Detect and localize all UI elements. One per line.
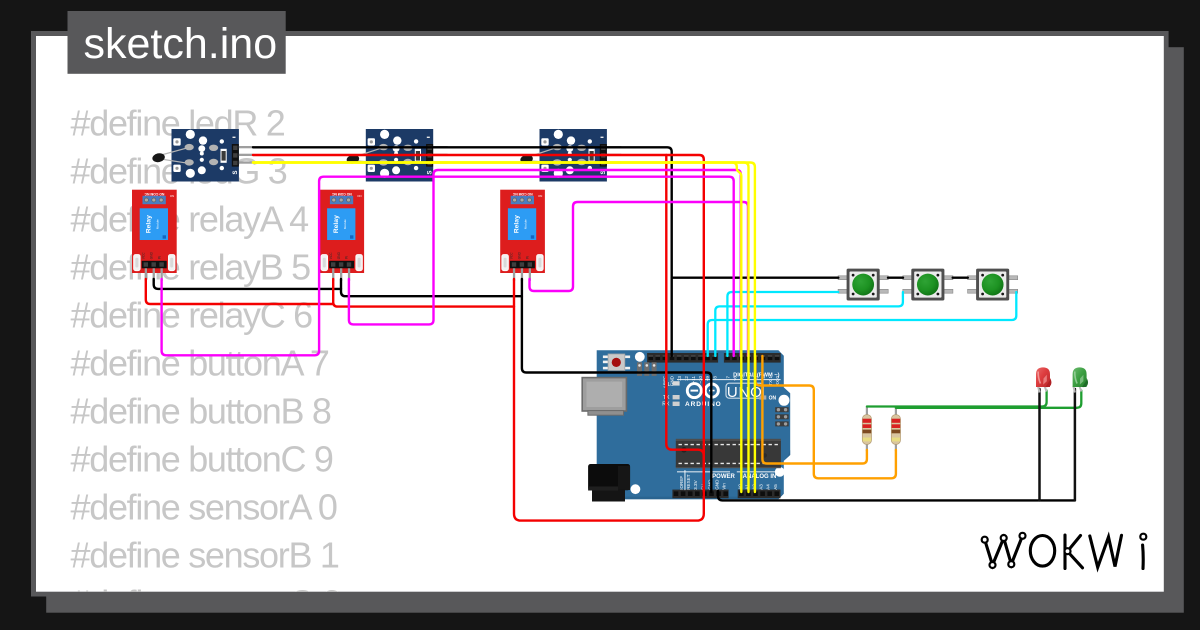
- svg-text:A3: A3: [759, 484, 764, 490]
- svg-text:#define relayB 5: #define relayB 5: [71, 246, 311, 287]
- thermistor of U3: [520, 147, 558, 165]
- svg-text:8: 8: [712, 376, 717, 379]
- wire yellow sensor1 S to A0: [253, 163, 741, 493]
- svg-text:#define relayA 4: #define relayA 4: [71, 198, 309, 239]
- svg-text:UNO: UNO: [727, 384, 763, 401]
- wire black button2-button3: [953, 277, 968, 279]
- wire red relay3 VCC loop to sensor VCC rail: [514, 155, 704, 521]
- UNO label: [726, 383, 763, 398]
- wire black relay2 GND to relay3 GND: [341, 279, 522, 296]
- ICSP header: [775, 407, 789, 426]
- svg-text:POWER: POWER: [712, 474, 735, 480]
- wire magenta relay1 IN to pin 6: [162, 177, 734, 356]
- svg-text:GND: GND: [715, 479, 720, 490]
- svg-text:13: 13: [677, 376, 682, 382]
- top pin header right group: [724, 353, 781, 363]
- svg-text:#define buttonA 7: #define buttonA 7: [71, 342, 329, 383]
- svg-text:A4: A4: [766, 484, 771, 490]
- arduino infinity logo: [687, 384, 718, 398]
- wire cyan button3 to pin 9: [708, 292, 1017, 356]
- wire black green LED cathode: [1074, 389, 1077, 500]
- top pin header left group: [647, 353, 718, 363]
- svg-text:12: 12: [684, 376, 689, 382]
- wire yellow sensor3 S to A2: [253, 163, 755, 493]
- thermistor of U2: [346, 147, 384, 165]
- relay module K2: [319, 190, 364, 281]
- svg-text:ON: ON: [769, 396, 777, 402]
- title box: [68, 11, 286, 74]
- svg-text:~6: ~6: [733, 376, 738, 382]
- relay module K1: [132, 190, 177, 281]
- bottom power header: [672, 490, 728, 499]
- WOKWI logo: [982, 533, 1147, 569]
- svg-text:TX 1: TX 1: [768, 376, 773, 386]
- svg-text:~10: ~10: [698, 376, 703, 384]
- NTC temperature sensor module U1: [172, 129, 254, 182]
- svg-text:7: 7: [725, 376, 730, 379]
- svg-text:3.3V: 3.3V: [693, 479, 698, 489]
- NTC temperature sensor module U2: [366, 129, 448, 182]
- wire red relay2 VCC to relay3 VCC: [333, 279, 514, 307]
- wire cyan button1 to pin 7: [727, 292, 838, 356]
- power jack J1: [588, 464, 630, 502]
- wire black Arduino GND2 to LED cathodes: [718, 491, 1075, 500]
- wire red sensor VCC rail to Arduino 5V: [253, 155, 704, 492]
- silkscreen: [662, 373, 780, 491]
- wire green resistor R1 to red LED anode: [867, 391, 1047, 407]
- USB connector: [582, 378, 626, 416]
- wire magenta relay2 IN to pin 5: [349, 170, 741, 356]
- wire black red LED cathode: [1038, 389, 1041, 500]
- USB ICSP pins: [637, 362, 657, 376]
- svg-text:IOREF: IOREF: [679, 476, 684, 490]
- wire yellow sensor2 S to A1: [253, 163, 749, 493]
- wire black relay3 GND to Arduino GND bottom: [522, 279, 711, 492]
- LED2 green: [1073, 367, 1088, 392]
- wire black relay1 GND to relay2 GND: [154, 279, 341, 289]
- wire orange pin 2 to resistor R1: [762, 356, 867, 464]
- wire green resistor R2 to green LED anode: [896, 391, 1081, 408]
- ATmega328 chip U4: [676, 439, 781, 468]
- svg-text:A5: A5: [773, 484, 778, 490]
- pushbutton S1: [838, 269, 888, 301]
- svg-text:#define sensorB 1: #define sensorB 1: [71, 534, 339, 575]
- mounting holes: [635, 352, 645, 362]
- svg-text:L: L: [668, 382, 671, 388]
- svg-text:Vin: Vin: [722, 483, 727, 490]
- wire magenta relay3 IN to pin 4: [530, 202, 749, 356]
- svg-text:#define relayC 6: #define relayC 6: [71, 294, 313, 335]
- NTC temperature sensor module U3: [540, 129, 622, 182]
- resistor R1 220ohm: [862, 407, 871, 451]
- resistor R2 220ohm: [891, 407, 900, 451]
- wire cyan button2 to pin 8: [715, 292, 903, 356]
- wire black button1-button2: [888, 277, 903, 279]
- thermistor of U1: [152, 147, 190, 163]
- bottom analog header: [738, 490, 781, 499]
- pushbutton S3: [968, 269, 1018, 301]
- svg-text:~9: ~9: [705, 376, 710, 382]
- svg-text:#define sensorA 0: #define sensorA 0: [71, 486, 337, 527]
- svg-text:RESET: RESET: [686, 474, 691, 490]
- pushbutton S2: [903, 269, 953, 301]
- wire orange pin 3 to resistor R2: [755, 356, 896, 478]
- svg-text:sketch.ino: sketch.ino: [84, 20, 278, 68]
- reset button SW: [603, 354, 630, 370]
- LED1 red: [1036, 367, 1051, 392]
- Arduino UNO board: [597, 350, 791, 499]
- svg-text:#define buttonC 9: #define buttonC 9: [71, 438, 333, 479]
- wire red relay1 VCC to relay2 VCC: [146, 279, 333, 304]
- wire black sensor GND rail to Arduino GND: [253, 147, 672, 356]
- relay module K3: [500, 190, 545, 281]
- svg-text:#define buttonB 8: #define buttonB 8: [71, 390, 331, 431]
- wire black buttons GND rail: [672, 277, 839, 279]
